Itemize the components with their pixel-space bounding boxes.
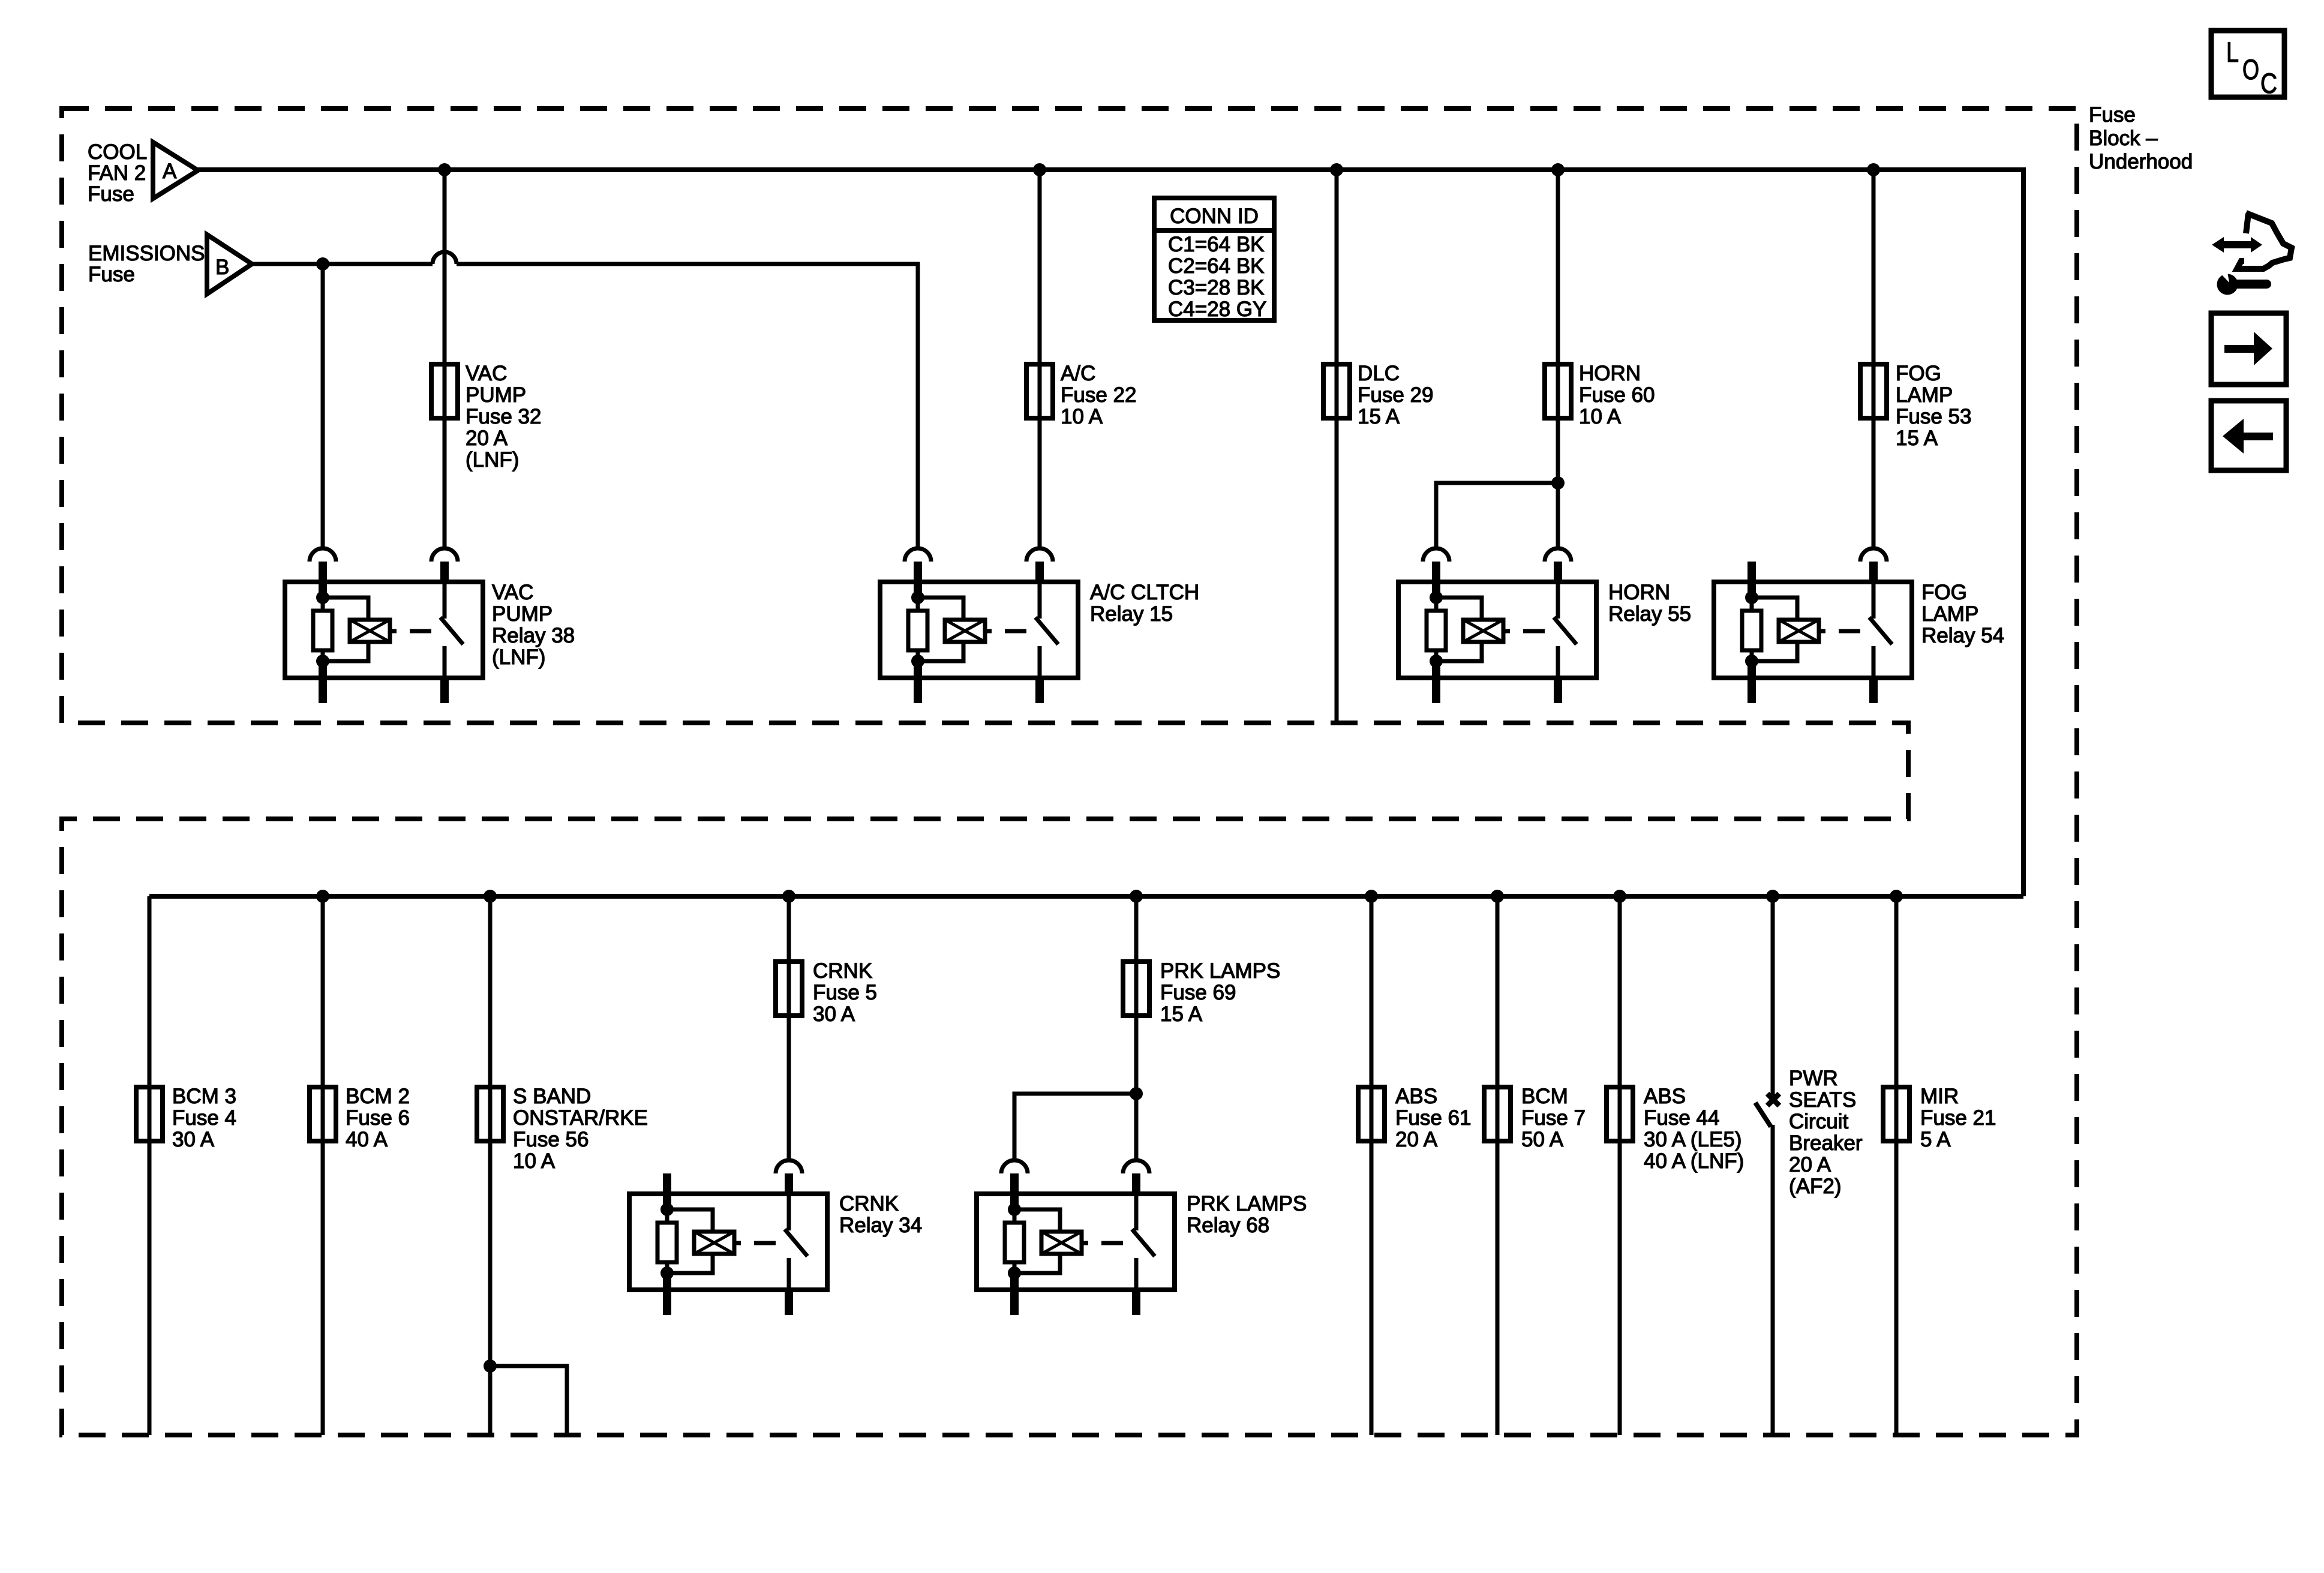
svg-text:15 A: 15 A	[1896, 427, 1938, 450]
svg-text:5 A: 5 A	[1920, 1128, 1951, 1151]
svg-text:C3=28 BK: C3=28 BK	[1168, 276, 1265, 299]
circuit breaker arm	[1755, 1103, 1771, 1127]
svg-text:Underhood: Underhood	[2089, 150, 2193, 173]
svg-text:20 A: 20 A	[466, 427, 508, 450]
wire: ABS fuse 61 drop	[1370, 896, 1374, 1435]
svg-text:HORN: HORN	[1608, 581, 1670, 604]
svg-text:CRNK: CRNK	[839, 1192, 899, 1215]
relay K15 A/C CLTCH Relay 15	[880, 562, 1078, 703]
svg-text:PUMP: PUMP	[492, 602, 553, 626]
icon: L O C locator box	[2211, 31, 2284, 97]
fuse F29 DLC Fuse 29	[1323, 364, 1350, 418]
fuse F69 PRK LAMPS Fuse 69	[1123, 962, 1149, 1016]
svg-text:FOG: FOG	[1896, 362, 1941, 385]
svg-text:40 A: 40 A	[346, 1128, 388, 1151]
wire: HORN relay coil branch	[1436, 483, 1558, 548]
connector arc: A/C CLTCH relay coil pin	[905, 548, 931, 562]
wire: CRNK fuse 5 feed	[787, 896, 791, 1160]
svg-text:BCM 3: BCM 3	[172, 1085, 236, 1108]
wire: FOG LAMP fuse 53 feed	[1872, 170, 1876, 548]
svg-text:ABS: ABS	[1395, 1085, 1437, 1108]
svg-text:Fuse 22: Fuse 22	[1061, 383, 1136, 407]
svg-text:Fuse 7: Fuse 7	[1521, 1106, 1586, 1130]
svg-text:Fuse 21: Fuse 21	[1920, 1106, 1996, 1130]
svg-text:Relay 34: Relay 34	[839, 1214, 922, 1237]
junction: fuse 69 output / PRK LAMPS relay coil branch	[1130, 1087, 1143, 1100]
junction: lower bus / fuse 7	[1491, 890, 1504, 903]
svg-text:DLC: DLC	[1358, 362, 1400, 385]
svg-text:(LNF): (LNF)	[466, 448, 519, 472]
fuse F53 FOG LAMP Fuse 53	[1860, 364, 1887, 418]
connector arc: FOG LAMP relay switch pin	[1860, 548, 1887, 562]
svg-text:40 A (LNF): 40 A (LNF)	[1644, 1149, 1744, 1173]
wire: BCM 2 fuse 6 drop	[321, 896, 325, 1435]
svg-text:BCM: BCM	[1521, 1085, 1568, 1108]
svg-text:10 A: 10 A	[1061, 405, 1103, 428]
relay K55 HORN Relay 55	[1398, 562, 1596, 703]
svg-text:HORN: HORN	[1579, 362, 1641, 385]
connector triangle A (COOL FAN 2 Fuse feed)	[153, 142, 198, 199]
junction: lower bus / fuse 44	[1613, 890, 1626, 903]
wire: S BAND fuse 56 drop	[488, 896, 493, 1435]
connector arc: VAC PUMP relay coil pin	[310, 548, 336, 562]
circuit breaker CB PWR SEATS (contact cross)	[1767, 1094, 1779, 1106]
svg-text:Fuse 69: Fuse 69	[1160, 981, 1236, 1004]
svg-text:PWR: PWR	[1789, 1067, 1838, 1090]
wire: VAC PUMP relay coil drop	[321, 264, 325, 548]
fuse F56 S BAND ONSTAR/RKE Fuse 56	[477, 1087, 503, 1141]
svg-text:SEATS: SEATS	[1789, 1088, 1856, 1112]
svg-text:C: C	[2260, 67, 2277, 99]
svg-text:Fuse 32: Fuse 32	[466, 405, 541, 428]
connector ID table	[1154, 198, 1274, 320]
svg-text:BCM 2: BCM 2	[346, 1085, 410, 1108]
svg-text:PRK LAMPS: PRK LAMPS	[1187, 1192, 1307, 1215]
svg-text:VAC: VAC	[466, 362, 507, 385]
svg-text:Fuse 44: Fuse 44	[1644, 1106, 1719, 1130]
svg-text:Relay 68: Relay 68	[1187, 1214, 1269, 1237]
svg-text:S BAND: S BAND	[513, 1085, 591, 1108]
icon: wrench	[2215, 265, 2271, 295]
fuse F21 MIR Fuse 21	[1883, 1087, 1909, 1141]
relay K34 CRNK Relay 34	[629, 1173, 827, 1315]
svg-text:Block –: Block –	[2089, 127, 2158, 150]
svg-text:10 A: 10 A	[1579, 405, 1622, 428]
svg-text:PUMP: PUMP	[466, 383, 526, 407]
svg-text:A/C CLTCH: A/C CLTCH	[1090, 581, 1199, 604]
svg-text:PRK LAMPS: PRK LAMPS	[1160, 959, 1280, 983]
svg-text:Fuse 60: Fuse 60	[1579, 383, 1655, 407]
connector arc: PRK LAMPS relay switch pin	[1123, 1160, 1149, 1173]
svg-text:Fuse: Fuse	[2089, 103, 2136, 127]
fuse F4 BCM 3 Fuse 4	[136, 1087, 163, 1141]
icon: vehicle with double arrow and wrench	[2237, 213, 2292, 269]
wire: DLC fuse 29 feed to connector	[1335, 170, 1339, 723]
svg-text:FAN 2: FAN 2	[88, 161, 146, 185]
svg-text:30 A (LE5): 30 A (LE5)	[1644, 1128, 1742, 1151]
junction: wire B / VAC PUMP relay coil drop	[316, 257, 329, 271]
wire: PWR SEATS circuit breaker feed	[1771, 896, 1775, 1098]
svg-text:Fuse 6: Fuse 6	[346, 1106, 410, 1130]
svg-text:30 A: 30 A	[172, 1128, 215, 1151]
svg-text:Fuse 61: Fuse 61	[1395, 1106, 1471, 1130]
wire: bus A from triangle A to right side feed drop	[198, 170, 2023, 896]
relay K68 PRK LAMPS Relay 68	[977, 1173, 1175, 1315]
svg-text:Fuse: Fuse	[88, 263, 135, 286]
connector arc: A/C CLTCH relay switch pin	[1026, 548, 1053, 562]
wire: VAC PUMP fuse 32 feed	[443, 170, 447, 548]
svg-text:15 A: 15 A	[1160, 1002, 1203, 1026]
svg-text:20 A: 20 A	[1789, 1153, 1831, 1176]
svg-text:Relay 54: Relay 54	[1921, 624, 2004, 647]
wire: PWR SEATS circuit breaker output	[1771, 1125, 1775, 1435]
svg-text:C2=64 BK: C2=64 BK	[1168, 254, 1265, 278]
svg-text:B: B	[215, 256, 229, 279]
svg-text:CRNK: CRNK	[813, 959, 872, 983]
wire: PRK LAMPS fuse 69 feed	[1134, 896, 1139, 1160]
connector arc: CRNK relay switch pin	[776, 1160, 802, 1173]
junction: bus A / fuse 60	[1551, 163, 1565, 176]
wire: ABS fuse 44 drop	[1618, 896, 1622, 1435]
svg-text:LAMP: LAMP	[1896, 383, 1953, 407]
relay K54 FOG LAMP Relay 54	[1714, 562, 1912, 703]
junction: bus A / fuse 53	[1867, 163, 1880, 176]
junction: lower bus / fuse 69	[1130, 890, 1143, 903]
svg-text:COOL: COOL	[88, 140, 147, 164]
svg-text:FOG: FOG	[1921, 581, 1967, 604]
icon: arrow box (previous page)	[2211, 401, 2286, 470]
svg-text:(AF2): (AF2)	[1789, 1175, 1842, 1198]
svg-text:C1=64 BK: C1=64 BK	[1168, 233, 1265, 256]
wire: BCM 3 fuse 4 drop	[148, 896, 152, 1435]
svg-text:A/C: A/C	[1061, 362, 1095, 385]
svg-text:CONN ID: CONN ID	[1170, 205, 1259, 228]
svg-text:Circuit: Circuit	[1789, 1110, 1848, 1133]
junction: bus A / fuse 32	[438, 163, 451, 176]
svg-text:50 A: 50 A	[1521, 1128, 1564, 1151]
fuse F22 A/C Fuse 22	[1026, 364, 1053, 418]
svg-text:L: L	[2226, 36, 2239, 68]
junction: lower bus / fuse 21	[1890, 890, 1903, 903]
junction: lower bus / fuse 61	[1365, 890, 1378, 903]
fuse F44 ABS Fuse 44	[1607, 1087, 1633, 1141]
connector arc: HORN relay switch pin	[1545, 548, 1571, 562]
junction: lower bus / fuse 56	[484, 890, 497, 903]
fuse block underhood dashed outline	[62, 109, 2077, 1435]
wire: MIR fuse 21 drop	[1894, 896, 1899, 1435]
connector triangle B (EMISSIONS Fuse feed)	[207, 235, 252, 294]
svg-text:O: O	[2242, 53, 2259, 85]
junction: bus A / fuse 22	[1033, 163, 1046, 176]
svg-text:15 A: 15 A	[1358, 405, 1400, 428]
svg-text:ABS: ABS	[1644, 1085, 1686, 1108]
svg-text:Fuse 53: Fuse 53	[1896, 405, 1971, 428]
svg-text:Fuse 29: Fuse 29	[1358, 383, 1433, 407]
svg-text:A: A	[163, 160, 177, 183]
svg-text:(LNF): (LNF)	[492, 646, 545, 669]
svg-text:ONSTAR/RKE: ONSTAR/RKE	[513, 1106, 648, 1130]
svg-text:Fuse 56: Fuse 56	[513, 1128, 588, 1151]
svg-text:Fuse 4: Fuse 4	[172, 1106, 236, 1130]
junction: bus A / fuse 29	[1330, 163, 1343, 176]
svg-text:EMISSIONS: EMISSIONS	[88, 242, 205, 265]
junction: horn fuse output / horn relay coil branch	[1551, 476, 1565, 490]
fuse F61 ABS Fuse 61	[1358, 1087, 1385, 1141]
fuse F60 HORN Fuse 60	[1545, 364, 1571, 418]
junction: fuse 56 output branch	[484, 1359, 497, 1373]
svg-text:20 A: 20 A	[1395, 1128, 1438, 1151]
wire: fuse 56 output branch stub	[490, 1366, 567, 1435]
svg-text:10 A: 10 A	[513, 1149, 556, 1173]
wire: PRK LAMPS relay coil branch	[1014, 1094, 1136, 1160]
connector arc: PRK LAMPS relay coil pin	[1001, 1160, 1028, 1173]
wire: lower feed bus	[149, 894, 2023, 899]
wire: HORN fuse 60 feed	[1556, 170, 1560, 548]
fuse F5 CRNK Fuse 5	[776, 962, 802, 1016]
svg-text:Relay 55: Relay 55	[1608, 602, 1691, 626]
wire: BCM fuse 7 drop	[1496, 896, 1500, 1435]
svg-text:C4=28 GY: C4=28 GY	[1168, 298, 1266, 321]
svg-text:Relay 38: Relay 38	[492, 624, 575, 647]
svg-text:Fuse: Fuse	[88, 182, 134, 206]
icon: arrow box (next page)	[2211, 313, 2286, 385]
wire: B from triangle B to A/C CLTCH relay coil, hop over fuse 32 wire	[252, 252, 918, 548]
fuse F32 VAC PUMP Fuse 32	[431, 364, 458, 418]
svg-text:Fuse 5: Fuse 5	[813, 981, 877, 1004]
junction: lower bus / circuit breaker	[1766, 890, 1779, 903]
junction: lower bus / fuse 5	[782, 890, 795, 903]
fuse F6 BCM 2 Fuse 6	[310, 1087, 336, 1141]
connector arc: HORN relay coil pin	[1423, 548, 1449, 562]
svg-text:MIR: MIR	[1920, 1085, 1959, 1108]
svg-text:VAC: VAC	[492, 581, 533, 604]
junction: lower bus / fuse 6	[316, 890, 329, 903]
svg-text:Relay 15: Relay 15	[1090, 602, 1173, 626]
fuse F7 BCM Fuse 7	[1484, 1087, 1511, 1141]
connector arc: VAC PUMP relay switch pin	[431, 548, 458, 562]
relay K38 VAC PUMP Relay 38	[285, 562, 483, 703]
svg-text:30 A: 30 A	[813, 1002, 855, 1026]
wire: A/C fuse 22 feed	[1038, 170, 1042, 548]
svg-text:LAMP: LAMP	[1921, 602, 1978, 626]
svg-text:Breaker: Breaker	[1789, 1131, 1863, 1155]
